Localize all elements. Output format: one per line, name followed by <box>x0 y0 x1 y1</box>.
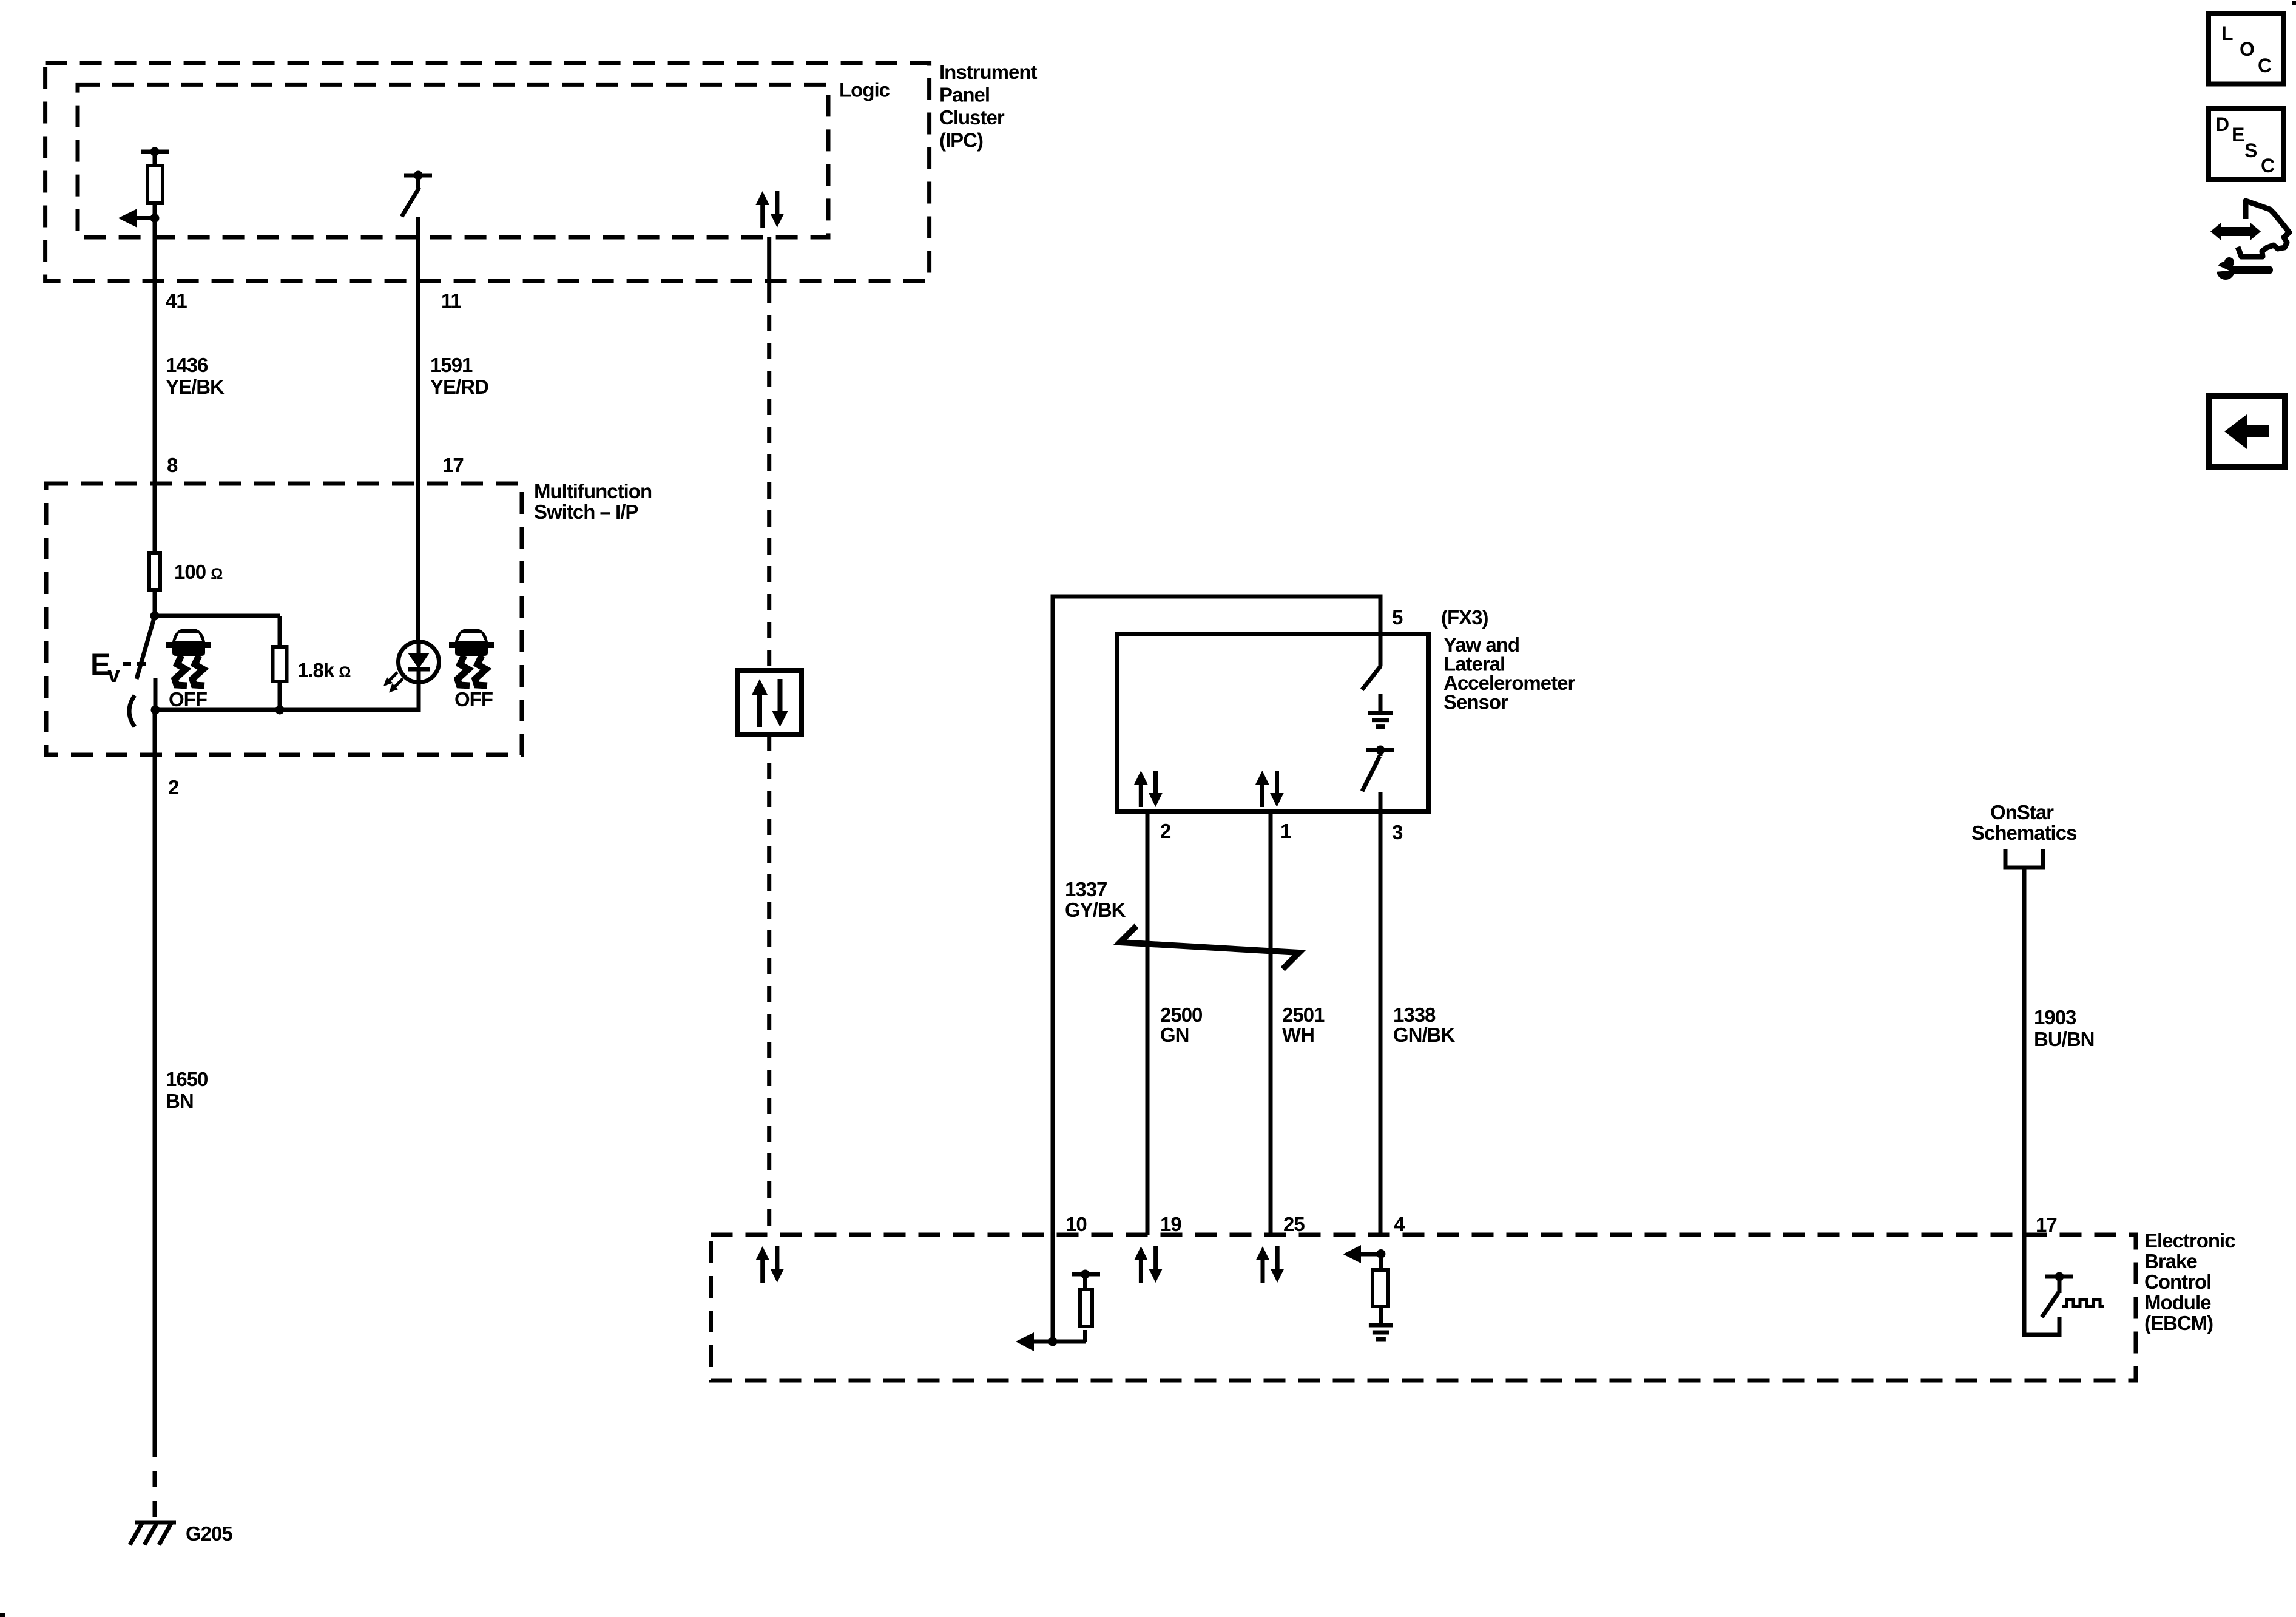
svg-text:Panel: Panel <box>939 84 990 106</box>
svg-text:3: 3 <box>1392 821 1403 843</box>
svg-text:BU/BN: BU/BN <box>2034 1028 2095 1050</box>
svg-text:17: 17 <box>2036 1214 2057 1236</box>
svg-text:S: S <box>2244 140 2257 161</box>
svg-text:BN: BN <box>166 1090 194 1112</box>
svg-text:OnStar: OnStar <box>1990 801 2054 823</box>
svg-text:25: 25 <box>1283 1213 1305 1235</box>
svg-text:19: 19 <box>1160 1213 1181 1235</box>
svg-text:8: 8 <box>167 454 178 476</box>
svg-text:1650: 1650 <box>166 1068 208 1090</box>
svg-text:17: 17 <box>442 454 464 476</box>
svg-text:2501: 2501 <box>1282 1004 1325 1026</box>
svg-text:11: 11 <box>441 289 462 312</box>
svg-text:1436: 1436 <box>166 354 208 376</box>
svg-text:5: 5 <box>1392 606 1403 629</box>
svg-text:GN/BK: GN/BK <box>1393 1024 1456 1046</box>
svg-text:Control: Control <box>2144 1271 2211 1293</box>
svg-text:1591: 1591 <box>430 354 473 376</box>
svg-text:D: D <box>2215 113 2229 135</box>
svg-text:2: 2 <box>1160 820 1171 842</box>
svg-text:Multifunction: Multifunction <box>534 480 652 502</box>
svg-text:OFF: OFF <box>454 688 493 711</box>
svg-text:10: 10 <box>1065 1213 1087 1235</box>
svg-text:Module: Module <box>2144 1291 2211 1314</box>
svg-text:L: L <box>2221 22 2233 44</box>
svg-text:v: v <box>107 662 120 687</box>
svg-text:(IPC): (IPC) <box>939 129 983 152</box>
svg-text:1903: 1903 <box>2034 1006 2076 1028</box>
svg-text:Switch – I/P: Switch – I/P <box>534 501 638 523</box>
svg-text:Sensor: Sensor <box>1443 691 1508 714</box>
svg-text:C: C <box>2258 55 2272 76</box>
svg-text:(FX3): (FX3) <box>1441 606 1488 629</box>
svg-text:1337: 1337 <box>1065 878 1107 900</box>
svg-text:GN: GN <box>1160 1024 1189 1046</box>
svg-text:GY/BK: GY/BK <box>1065 899 1126 921</box>
svg-text:YE/BK: YE/BK <box>166 376 225 398</box>
svg-text:YE/RD: YE/RD <box>430 376 488 398</box>
svg-text:2: 2 <box>168 776 179 798</box>
svg-text:G205: G205 <box>186 1522 232 1545</box>
svg-text:4: 4 <box>1394 1213 1405 1235</box>
svg-text:E: E <box>2232 124 2244 146</box>
svg-text:Schematics: Schematics <box>1971 822 2076 844</box>
svg-text:Instrument: Instrument <box>939 61 1038 83</box>
svg-text:Cluster: Cluster <box>939 106 1005 129</box>
svg-text:Brake: Brake <box>2144 1250 2197 1272</box>
svg-text:WH: WH <box>1282 1024 1314 1046</box>
svg-text:41: 41 <box>166 289 187 312</box>
svg-text:Logic: Logic <box>839 79 890 101</box>
svg-text:C: C <box>2261 155 2275 177</box>
svg-text:(EBCM): (EBCM) <box>2144 1312 2213 1334</box>
svg-text:Electronic: Electronic <box>2144 1229 2235 1252</box>
svg-text:2500: 2500 <box>1160 1004 1202 1026</box>
svg-text:1338: 1338 <box>1393 1004 1436 1026</box>
svg-text:OFF: OFF <box>169 688 207 711</box>
svg-text:O: O <box>2240 38 2254 60</box>
svg-text:1: 1 <box>1280 820 1291 842</box>
